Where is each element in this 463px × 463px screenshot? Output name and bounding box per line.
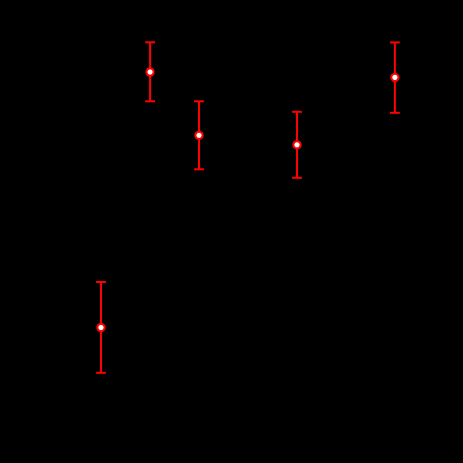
error bar 5 (rightmost, x=395) <box>390 42 400 112</box>
marker 4 <box>293 141 300 148</box>
marker 1 <box>97 324 104 331</box>
marker 5 <box>391 74 398 81</box>
error bar 1 (leftmost, x=101) <box>96 282 106 373</box>
error bar 4 (x=297) <box>292 112 302 178</box>
marker 2 <box>146 68 153 75</box>
error bar 3 (x=199) <box>194 101 204 169</box>
marker 3 <box>195 132 202 139</box>
error bar 2 (x=150) <box>145 42 155 101</box>
